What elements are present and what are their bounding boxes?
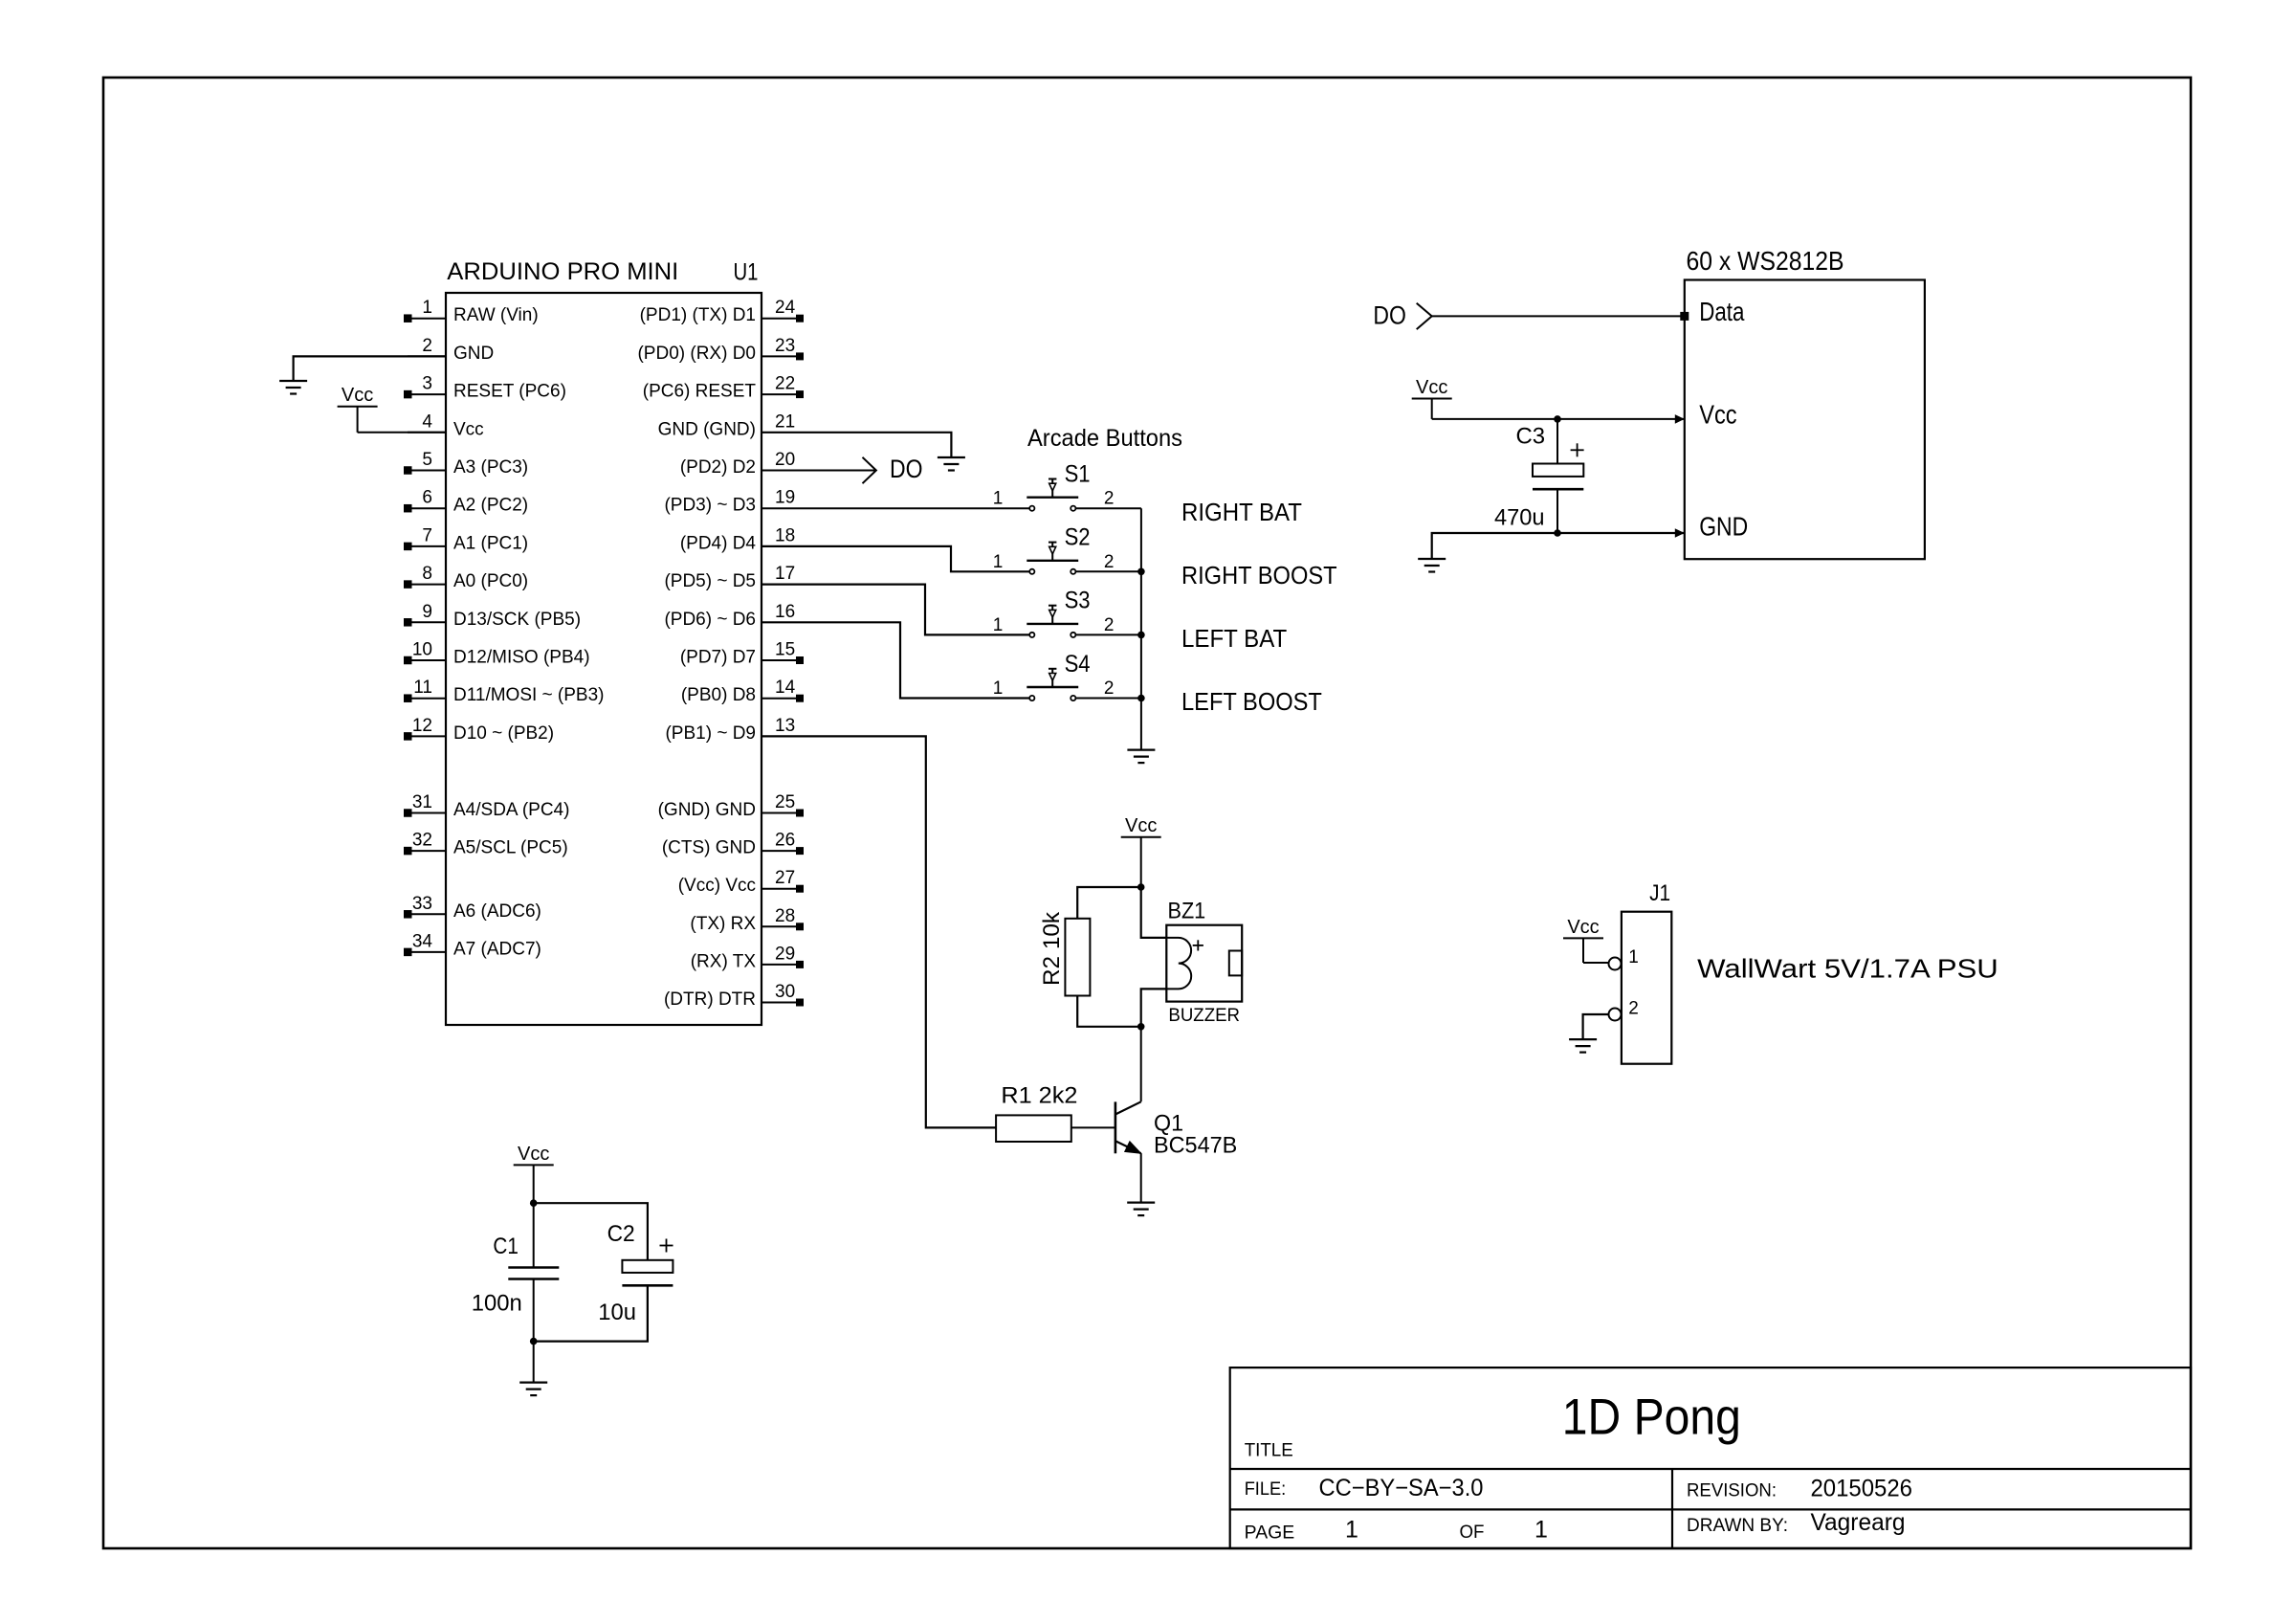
junction	[1137, 568, 1145, 576]
svg-text:Vcc: Vcc	[1567, 917, 1599, 938]
svg-text:LEFT BOOST: LEFT BOOST	[1181, 687, 1322, 716]
net label DO arrow (pin 20)	[863, 455, 923, 483]
svg-text:(PD1) (TX) D1: (PD1) (TX) D1	[640, 305, 756, 325]
capacitor C3 470u	[1494, 419, 1584, 533]
svg-text:A7 (ADC7): A7 (ADC7)	[453, 939, 541, 959]
wire S2 pin2 to bus	[1075, 570, 1141, 572]
U1 pin 2 GND	[408, 336, 494, 364]
wire C1 bottom to ground	[533, 1342, 535, 1383]
svg-text:(TX) RX: (TX) RX	[690, 914, 756, 934]
svg-text:(PC6) RESET: (PC6) RESET	[643, 382, 757, 402]
svg-text:(PD6) ~ D6: (PD6) ~ D6	[664, 610, 756, 630]
svg-text:28: 28	[775, 906, 795, 926]
ground at U1 pin 21	[938, 457, 965, 471]
U1 pin 17 (PD5) ~ D5	[664, 564, 795, 591]
U1 pin 21 GND (GND)	[658, 411, 796, 439]
svg-text:15: 15	[775, 640, 795, 660]
label FILE	[1245, 1479, 1287, 1500]
svg-text:1: 1	[1534, 1517, 1548, 1544]
value page 1	[1345, 1517, 1358, 1544]
wire Vcc to LED strip	[1432, 418, 1685, 420]
U1 pin 32 A5/SCL (PC5)	[404, 831, 568, 858]
svg-text:D13/SCK (PB5): D13/SCK (PB5)	[453, 610, 581, 630]
value of 1	[1534, 1517, 1548, 1544]
svg-text:2: 2	[1104, 615, 1115, 635]
title text 1D Pong	[1562, 1389, 1741, 1445]
power Vcc at buzzer	[1121, 815, 1161, 887]
U1 pin 3 RESET (PC6)	[404, 374, 566, 402]
svg-text:30: 30	[775, 982, 795, 1002]
wire R1 to Q1 base	[1071, 1126, 1115, 1128]
LED strip 60 x WS2812B body	[1685, 246, 1925, 559]
svg-text:(Vcc) Vcc: (Vcc) Vcc	[678, 876, 756, 896]
U1 pin 18 (PD4) D4	[680, 525, 795, 553]
svg-text:8: 8	[422, 564, 432, 584]
svg-text:WallWart 5V/1.7A PSU: WallWart 5V/1.7A PSU	[1697, 954, 1998, 984]
wire DO to Data	[1432, 315, 1685, 317]
svg-text:19: 19	[775, 488, 795, 508]
svg-text:(PB1) ~ D9: (PB1) ~ D9	[665, 723, 756, 744]
wire U1 pin 21 to ground	[762, 433, 951, 457]
svg-text:20: 20	[775, 450, 795, 470]
svg-text:R2 10k: R2 10k	[1039, 911, 1065, 986]
wire switch common bus	[1140, 508, 1142, 749]
svg-text:REVISION:: REVISION:	[1687, 1481, 1777, 1501]
wire S1 pin2 to bus	[1075, 507, 1141, 509]
net label RIGHT BAT	[1181, 498, 1302, 526]
wire Vcc node to R2 top	[1077, 887, 1141, 919]
svg-text:(PD0) (RX) D0: (PD0) (RX) D0	[637, 344, 756, 364]
svg-text:(RX) TX: (RX) TX	[691, 951, 757, 971]
buzzer BZ1	[1166, 898, 1242, 1025]
power Vcc at LED strip	[1412, 377, 1452, 419]
wire S4 pin2 to bus	[1075, 698, 1141, 700]
U1 pin 1 RAW (Vin)	[404, 298, 539, 325]
power Vcc at C1	[514, 1144, 554, 1203]
label DRAWN BY	[1687, 1516, 1788, 1536]
svg-text:1: 1	[993, 552, 1004, 572]
label TITLE	[1245, 1440, 1293, 1460]
junction at C3 bottom	[1554, 529, 1561, 537]
pin marker Data	[1680, 312, 1689, 321]
junction at C1 top	[530, 1199, 538, 1207]
svg-text:DO: DO	[1373, 301, 1406, 330]
U1 pin 22 (PC6) RESET	[643, 374, 804, 402]
U1 pin 12 D10 ~ (PB2)	[404, 716, 554, 744]
svg-text:17: 17	[775, 564, 795, 584]
wire U1 pin 19 to S1	[762, 507, 1029, 509]
U1 pin 16 (PD6) ~ D6	[664, 602, 795, 630]
power Vcc at U1 pin 4	[338, 385, 378, 433]
U1 pin 23 (PD0) (RX) D0	[637, 336, 804, 364]
U1 pin 6 A2 (PC2)	[404, 488, 528, 516]
svg-text:22: 22	[775, 374, 795, 394]
svg-text:1: 1	[422, 298, 432, 318]
svg-text:31: 31	[412, 792, 432, 812]
svg-text:18: 18	[775, 525, 795, 545]
pin marker Vcc	[1675, 414, 1685, 424]
U1 pin 34 A7 (ADC7)	[404, 931, 541, 959]
U1 pin 4 Vcc	[408, 411, 484, 439]
svg-text:29: 29	[775, 944, 795, 964]
capacitor C1 100n	[472, 1203, 560, 1341]
wire Vcc to J1 pin 1	[1583, 962, 1609, 964]
svg-text:20150526: 20150526	[1811, 1475, 1913, 1501]
svg-text:BUZZER: BUZZER	[1168, 1005, 1240, 1026]
svg-text:C1: C1	[493, 1234, 519, 1259]
svg-text:BZ1: BZ1	[1168, 898, 1206, 923]
svg-text:A3 (PC3): A3 (PC3)	[453, 457, 528, 478]
svg-text:1: 1	[1628, 947, 1639, 967]
svg-text:Vcc: Vcc	[1699, 400, 1736, 430]
label Arcade Buttons	[1027, 425, 1182, 452]
transistor Q1 BC547B	[1115, 1101, 1237, 1158]
U1 pin 31 A4/SDA (PC4)	[404, 792, 569, 820]
IC U1 ARDUINO PRO MINI body	[446, 258, 762, 1025]
title block	[1230, 1367, 2191, 1548]
wire U1 pin 16 to S4	[762, 622, 1029, 698]
svg-text:DRAWN BY:: DRAWN BY:	[1687, 1516, 1788, 1536]
svg-text:24: 24	[775, 298, 796, 318]
svg-text:ARDUINO PRO MINI: ARDUINO PRO MINI	[447, 258, 678, 285]
wire Q1 emitter to ground	[1140, 1153, 1142, 1202]
svg-text:A0 (PC0): A0 (PC0)	[453, 571, 528, 591]
svg-text:D11/MOSI ~ (PB3): D11/MOSI ~ (PB3)	[453, 685, 605, 705]
wire Vcc node down to BZ1 pin 1	[1141, 887, 1167, 938]
junction at Q1 collector node	[1137, 1023, 1145, 1031]
label OF	[1460, 1523, 1485, 1543]
wire GND run to LED strip	[1432, 533, 1685, 559]
svg-text:GND: GND	[1699, 512, 1748, 542]
capacitor C2 10u	[598, 1221, 673, 1342]
svg-text:Vcc: Vcc	[1125, 815, 1157, 836]
U1 pin 30 (DTR) DTR	[664, 982, 804, 1010]
wire U1 pin 20 DO	[762, 470, 876, 472]
wire Vcc to U1 pin 4	[358, 432, 446, 434]
label WallWart	[1697, 954, 1998, 984]
U1 pin 28 (TX) RX	[690, 906, 804, 934]
svg-text:(DTR) DTR: (DTR) DTR	[664, 989, 756, 1010]
pin marker GND	[1675, 528, 1685, 538]
svg-text:C2: C2	[607, 1221, 635, 1247]
svg-text:LEFT BAT: LEFT BAT	[1181, 624, 1287, 653]
svg-text:33: 33	[412, 894, 432, 914]
svg-text:Vcc: Vcc	[453, 419, 484, 439]
svg-text:U1: U1	[734, 258, 759, 285]
svg-text:1: 1	[993, 615, 1004, 635]
svg-text:470u: 470u	[1494, 505, 1545, 531]
value CC-BY-SA-3.0	[1319, 1475, 1484, 1501]
switch S4	[993, 651, 1115, 700]
svg-text:2: 2	[1628, 999, 1639, 1019]
svg-text:10: 10	[412, 640, 432, 660]
svg-text:23: 23	[775, 336, 795, 356]
svg-text:A2 (PC2): A2 (PC2)	[453, 496, 528, 516]
U1 pin 11 D11/MOSI ~ (PB3)	[404, 678, 605, 705]
power Vcc at J1 pin 1	[1563, 917, 1603, 963]
net label RIGHT BOOST	[1181, 561, 1337, 589]
svg-text:2: 2	[1104, 678, 1115, 699]
svg-text:TITLE: TITLE	[1245, 1440, 1293, 1460]
junction	[1137, 695, 1145, 702]
svg-text:RESET (PC6): RESET (PC6)	[453, 382, 566, 402]
wire U1 pin 17 to S3	[762, 585, 1029, 635]
svg-text:A4/SDA (PC4): A4/SDA (PC4)	[453, 800, 569, 820]
value 20150526	[1811, 1475, 1913, 1501]
switch S1	[993, 461, 1115, 511]
junction at C3 top	[1554, 415, 1561, 423]
svg-text:(PD3) ~ D3: (PD3) ~ D3	[664, 496, 756, 516]
svg-text:GND (GND): GND (GND)	[658, 419, 756, 439]
svg-text:RIGHT BOOST: RIGHT BOOST	[1181, 561, 1337, 589]
svg-text:A1 (PC1): A1 (PC1)	[453, 533, 528, 553]
wire BZ1 pin 2 to junction	[1141, 989, 1167, 1026]
svg-text:RIGHT BAT: RIGHT BAT	[1181, 498, 1302, 526]
svg-text:GND: GND	[453, 344, 494, 364]
net label LEFT BOOST	[1181, 687, 1322, 716]
svg-text:6: 6	[422, 488, 432, 508]
U1 pin 19 (PD3) ~ D3	[664, 488, 795, 516]
svg-text:(PD7) D7: (PD7) D7	[680, 648, 756, 668]
net label LEFT BAT	[1181, 624, 1287, 653]
svg-text:Arcade Buttons: Arcade Buttons	[1027, 425, 1182, 452]
svg-text:BC547B: BC547B	[1154, 1132, 1237, 1158]
svg-text:25: 25	[775, 792, 795, 812]
svg-text:(GND) GND: (GND) GND	[658, 800, 756, 820]
ground at switch bus	[1127, 750, 1155, 764]
svg-text:5: 5	[422, 450, 432, 470]
svg-text:D10 ~ (PB2): D10 ~ (PB2)	[453, 723, 554, 744]
svg-text:2: 2	[422, 336, 432, 356]
ground at C1	[519, 1383, 547, 1396]
svg-text:A5/SCL (PC5): A5/SCL (PC5)	[453, 838, 568, 858]
svg-text:1: 1	[993, 678, 1004, 699]
U1 pin 8 A0 (PC0)	[404, 564, 528, 591]
svg-text:S2: S2	[1065, 524, 1091, 551]
ground at J1 pin 2	[1569, 1039, 1597, 1053]
svg-text:7: 7	[422, 525, 432, 545]
svg-text:S4: S4	[1065, 651, 1091, 678]
svg-text:16: 16	[775, 602, 795, 622]
U1 pin 13 (PB1) ~ D9	[665, 716, 795, 744]
ground at LED strip	[1418, 559, 1446, 572]
svg-text:27: 27	[775, 868, 795, 888]
svg-text:34: 34	[412, 931, 433, 951]
svg-text:(PB0) D8: (PB0) D8	[681, 685, 756, 705]
wire J1 pin 2 to ground	[1583, 1014, 1609, 1039]
svg-text:Vcc: Vcc	[518, 1144, 549, 1165]
svg-text:60 x WS2812B: 60 x WS2812B	[1687, 246, 1844, 276]
label PAGE	[1245, 1523, 1295, 1544]
svg-text:2: 2	[1104, 489, 1115, 509]
junction at C1 bottom	[530, 1338, 538, 1345]
svg-text:13: 13	[775, 716, 795, 736]
svg-text:2: 2	[1104, 552, 1115, 572]
svg-text:4: 4	[422, 411, 432, 432]
ground at Q1 emitter	[1127, 1203, 1155, 1216]
U1 pin 26 (CTS) GND	[662, 831, 804, 858]
U1 pin 7 A1 (PC1)	[404, 525, 528, 553]
U1 pin 20 (PD2) D2	[680, 450, 795, 478]
wire U1 pin 2 to ground	[294, 356, 446, 381]
wire S3 pin2 to bus	[1075, 634, 1141, 635]
wire C1 top node to C2	[534, 1203, 648, 1260]
svg-text:PAGE: PAGE	[1245, 1523, 1295, 1544]
U1 pin 5 A3 (PC3)	[404, 450, 528, 478]
svg-text:10u: 10u	[598, 1300, 636, 1325]
svg-text:(CTS) GND: (CTS) GND	[662, 838, 756, 858]
wire C2 bottom to C1 bottom node	[534, 1285, 648, 1341]
wire R2 bottom to junction	[1077, 996, 1141, 1027]
svg-text:14: 14	[775, 678, 796, 698]
svg-text:OF: OF	[1460, 1523, 1485, 1543]
resistor R1 2k2	[996, 1083, 1077, 1142]
svg-text:C3: C3	[1516, 424, 1546, 450]
U1 pin 15 (PD7) D7	[680, 640, 804, 668]
U1 pin 29 (RX) TX	[691, 944, 804, 971]
U1 pin 33 A6 (ADC6)	[404, 894, 541, 922]
svg-text:100n: 100n	[472, 1291, 522, 1317]
junction	[1137, 632, 1145, 639]
svg-text:21: 21	[775, 411, 795, 432]
svg-text:9: 9	[422, 602, 432, 622]
U1 pin 27 (Vcc) Vcc	[678, 868, 804, 896]
svg-text:Vcc: Vcc	[342, 385, 373, 406]
U1 pin 10 D12/MISO (PB4)	[404, 640, 590, 668]
svg-text:DO: DO	[890, 455, 923, 483]
connector J1	[1609, 880, 1672, 1064]
svg-text:1D Pong: 1D Pong	[1562, 1389, 1741, 1445]
svg-text:D12/MISO (PB4): D12/MISO (PB4)	[453, 648, 590, 668]
svg-text:Vagrearg: Vagrearg	[1811, 1509, 1906, 1536]
U1 pin 25 (GND) GND	[658, 792, 804, 820]
svg-text:1: 1	[993, 489, 1004, 509]
ground at U1 pin 2	[279, 381, 307, 394]
switch S3	[993, 588, 1115, 637]
svg-text:(PD5) ~ D5: (PD5) ~ D5	[664, 571, 756, 591]
svg-text:12: 12	[412, 716, 432, 736]
svg-text:S1: S1	[1065, 461, 1091, 488]
U1 pin 14 (PB0) D8	[681, 678, 804, 705]
svg-text:1: 1	[1345, 1517, 1358, 1544]
svg-text:R1 2k2: R1 2k2	[1001, 1083, 1077, 1109]
svg-text:FILE:: FILE:	[1245, 1479, 1287, 1500]
svg-text:J1: J1	[1649, 880, 1670, 906]
svg-text:CC−BY−SA−3.0: CC−BY−SA−3.0	[1319, 1475, 1484, 1501]
svg-text:32: 32	[412, 831, 432, 851]
svg-text:S3: S3	[1065, 588, 1091, 614]
net label DO arrow (LED strip)	[1373, 301, 1431, 330]
svg-text:RAW (Vin): RAW (Vin)	[453, 305, 539, 325]
resistor R2 10k	[1039, 911, 1090, 996]
svg-text:Vcc: Vcc	[1416, 377, 1447, 398]
svg-text:11: 11	[413, 678, 432, 698]
U1 pin 24 (PD1) (TX) D1	[640, 298, 804, 325]
switch S2	[993, 524, 1115, 574]
junction at Vcc node	[1137, 883, 1145, 891]
U1 pin 9 D13/SCK (PB5)	[404, 602, 581, 630]
label REVISION	[1687, 1481, 1777, 1501]
wire U1 pin 13 to R1	[762, 736, 996, 1127]
svg-text:Data: Data	[1699, 297, 1745, 326]
wire U1 pin 18 to S2	[762, 546, 1029, 571]
svg-text:(PD4) D4: (PD4) D4	[680, 533, 757, 553]
svg-text:A6 (ADC6): A6 (ADC6)	[453, 901, 541, 922]
wire collector	[1140, 1027, 1142, 1102]
svg-text:26: 26	[775, 831, 795, 851]
svg-text:3: 3	[422, 374, 432, 394]
value Vagrearg	[1811, 1509, 1906, 1536]
svg-text:(PD2) D2: (PD2) D2	[680, 457, 756, 478]
